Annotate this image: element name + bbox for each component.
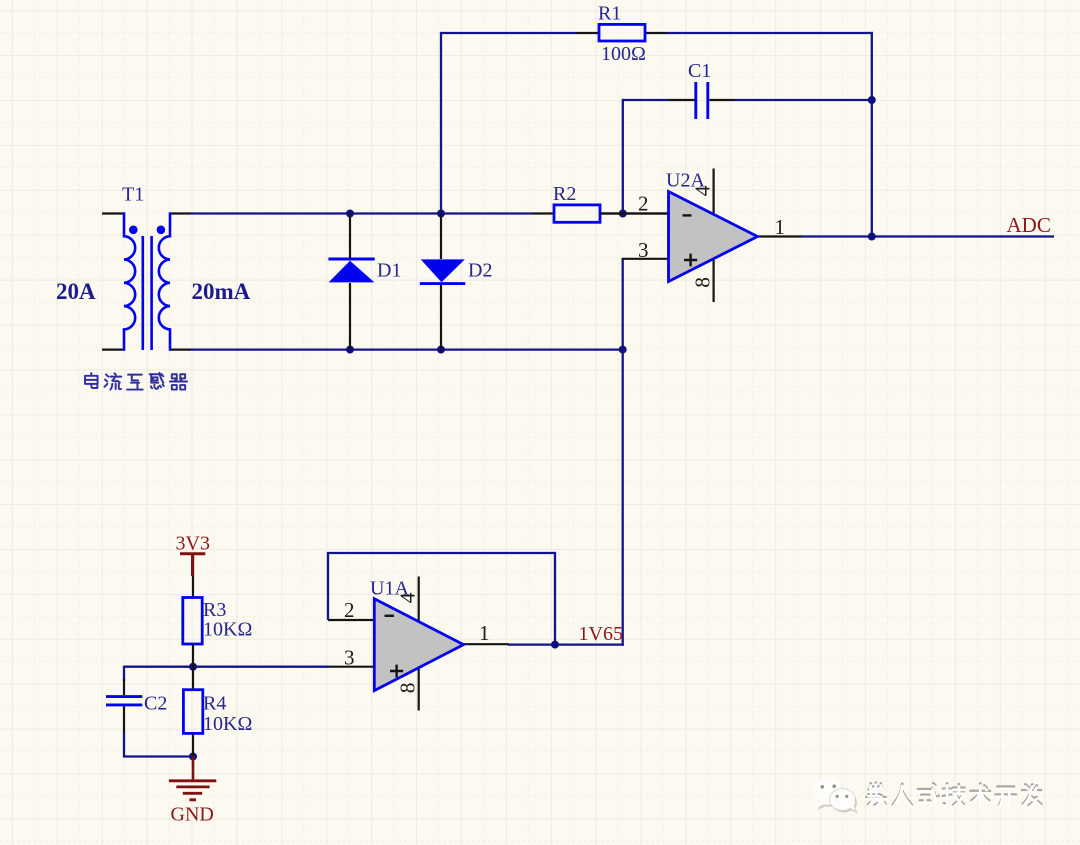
watermark logo small bubble eyes [836,795,839,798]
watermark [814,777,1042,813]
svg-text:4: 4 [396,592,420,603]
svg-text:1: 1 [479,621,490,645]
power port 3V3 pin [192,576,194,598]
svg-text:10KΩ: 10KΩ [203,713,252,735]
svg-text:R1: R1 [598,3,621,25]
junction dot D1 bottom [346,346,354,354]
svg-text:2: 2 [344,598,355,622]
svg-text:R4: R4 [203,693,226,715]
wire U1A feedback vertical at pin2 [327,553,329,620]
transformer T1 secondary winding [159,212,170,350]
wire U2A output to ADC [801,235,1054,237]
junction dot bottom rail to long vertical [619,346,627,354]
CJK transformer caption 电流互感器 [85,373,187,390]
diode D2 triangle [421,259,465,282]
junction dot R2 right C1 branch [619,210,627,218]
wire bottom rail from T1 [189,348,624,350]
svg-text:20A: 20A [56,279,96,304]
wire top feedback left segment [441,32,576,34]
watermark logo big bubble [814,777,843,807]
svg-text:4: 4 [691,185,715,196]
wire C1 row left segment [623,99,669,101]
junction dot C1 right [868,96,876,104]
wire long vertical from U2A pin3 down to 1V65 node [622,259,624,646]
svg-text:20mA: 20mA [192,279,251,304]
svg-text:3: 3 [638,238,649,262]
junction dot D2 bottom [437,346,445,354]
transformer T1 phase dot primary [129,226,138,235]
junction dot D1 top [346,210,354,218]
wire C1 left vertical down to pin2 node [622,99,624,214]
wire top rail from T1 to R2 [189,212,532,214]
transformer T1 pins [102,214,190,350]
wire C2 left branch bottom [123,731,125,757]
svg-text:D2: D2 [468,260,492,282]
svg-text:T1: T1 [122,184,144,206]
watermark logo big bubble shadow [815,779,844,809]
svg-text:R2: R2 [553,183,576,205]
ground GND bars [169,781,216,800]
svg-text:3V3: 3V3 [176,533,210,555]
op-amp U1A input pin 2 wire [328,619,376,621]
watermark logo small bubble [829,789,856,812]
resistor R4 bottom pin [192,733,194,756]
op-amp U2A plus mark [684,254,697,267]
wire C2 bottom to GND node [123,755,193,757]
power port 3V3 stem [191,554,194,576]
svg-text:ADC: ADC [1007,213,1051,237]
op-amp U1A triangle body [374,599,463,691]
junction dot GND node [189,753,197,761]
resistor R3 body [183,598,202,645]
resistor R2 pins [532,212,670,214]
wire vertical from top feedback down to inverting rail [440,32,442,214]
svg-text:1V65: 1V65 [579,623,623,645]
svg-text:10KΩ: 10KΩ [203,619,252,641]
wire C2 left branch top corner [123,666,125,681]
op-amp U2A input pin 2 wire [600,212,670,214]
junction dot D2 top [437,210,445,218]
op-amp U2A minus mark [683,214,692,216]
diode D1 pins [349,214,351,350]
op-amp U1A input pin 3 wire [329,666,376,668]
svg-text:C2: C2 [144,693,167,715]
capacitor C2 pins [123,679,125,732]
op-amp U1A plus mark [390,665,403,678]
char hu [127,375,143,390]
op-amp U2A input pin 3 wire [622,258,670,260]
wire U1A feedback right vertical down to output [554,552,556,645]
power port 3V3 bar [180,552,205,555]
resistor R4 top pin [192,667,194,690]
wire U1A feedback top horizontal [327,552,555,554]
capacitor C2 plates [106,697,142,705]
junction dot U1A feedback output [551,641,559,649]
capacitor C1 pins [669,99,735,101]
resistor R2 body [554,205,600,222]
svg-text:GND: GND [171,804,214,826]
diode D1 triangle [329,261,375,283]
resistor R3 bottom pin [192,644,194,667]
char gan [150,373,164,389]
op-amp U2A output pin 1 wire [756,235,802,237]
op-amp U2A triangle body [669,192,758,282]
char qi [170,374,187,389]
ground GND stem [192,757,195,781]
watermark logo big bubble eyes [821,785,825,789]
watermark text white 嵌入式技术开发 [867,785,1042,808]
char liu [104,373,121,389]
svg-text:8: 8 [691,277,715,288]
op-amp U1A minus mark [385,615,395,617]
wire top feedback right segment [667,32,873,34]
junction dot output node [868,233,876,241]
svg-text:100Ω: 100Ω [601,43,646,65]
op-amp U1A output pin 1 wire [462,643,509,645]
resistor R1 pins [576,32,667,34]
char dian [85,373,98,388]
op-amp U2A power pin line [712,169,714,303]
op-amp U1A power pin line [418,577,420,711]
wire vertical right from top feedback to output node [871,32,873,237]
wire C1 row right segment [735,99,873,101]
svg-text:8: 8 [396,683,420,694]
svg-text:3: 3 [344,646,355,670]
transformer T1 core lines [143,236,152,350]
resistor R4 body [183,690,202,734]
diode D1 cathode bar [328,258,374,261]
wire divider node row [124,666,329,668]
watermark text shadow 嵌入式技术开发 [867,783,1042,806]
junction dot divider node [189,663,197,671]
wire U1A output to 1V65 node [508,643,624,645]
capacitor C1 plates [696,82,708,119]
svg-text:D1: D1 [377,260,401,282]
resistor R1 body [599,24,645,41]
diode D2 pins [440,214,442,350]
transformer T1 phase dot secondary [157,226,166,235]
svg-text:C1: C1 [688,60,711,82]
watermark logo small bubble shadow [831,791,858,814]
diode D2 cathode bar [420,282,466,285]
svg-text:2: 2 [638,192,649,216]
svg-text:1: 1 [775,215,786,239]
transformer T1 primary winding [124,212,135,350]
